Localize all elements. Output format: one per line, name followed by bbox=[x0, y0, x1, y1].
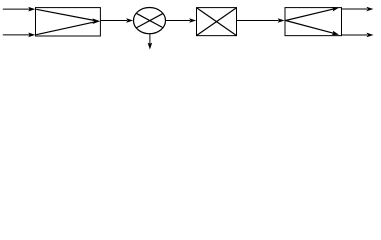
head: output arrow 2 bbox=[367, 33, 374, 38]
splitter internal arrow line (lower) bbox=[286, 21, 334, 34]
head: wire into channel box bbox=[189, 18, 196, 23]
demultiplexer box (splitter) bbox=[285, 8, 342, 36]
head: combiner convergence bbox=[92, 18, 100, 24]
mixer (multiplier) ellipse bbox=[134, 8, 166, 34]
input arrow 1 (top wire) bbox=[3, 8, 30, 10]
arrowheads bbox=[28, 5, 373, 49]
head: input arrow 2 bbox=[28, 33, 35, 38]
head: splitter lower internal arrow bbox=[332, 31, 340, 37]
multiplexer box (combiner) bbox=[36, 8, 101, 36]
mixer X symbol stroke 1 bbox=[136, 13, 163, 28]
channel box X diagonal 1 bbox=[197, 8, 236, 35]
mixer output wire (down) bbox=[149, 34, 151, 45]
head: input arrow 1 bbox=[28, 7, 35, 12]
output arrow 2 (bottom wire) bbox=[342, 34, 367, 36]
channel box X diagonal 2 bbox=[197, 8, 236, 35]
output arrow 1 (top wire) bbox=[342, 8, 367, 10]
wire: combiner to mixer bbox=[101, 20, 127, 22]
head: output arrow 1 bbox=[366, 7, 373, 12]
head: splitter upper internal arrow bbox=[332, 5, 340, 11]
wire: channel to demultiplexer bbox=[237, 20, 279, 22]
splitter internal arrow line (upper) bbox=[286, 9, 334, 21]
channel box bbox=[197, 8, 237, 36]
head: wire into demultiplexer bbox=[278, 18, 285, 23]
input arrow 2 (bottom wire) bbox=[3, 34, 30, 36]
head: wire into mixer bbox=[126, 18, 133, 23]
combiner internal arrow line (lower) bbox=[36, 22, 94, 35]
head: mixer down output bbox=[148, 43, 153, 50]
curved / diagonal strokes (antialiased) bbox=[36, 8, 334, 36]
axis-aligned wires and boxes (crisp 1px) bbox=[3, 8, 367, 45]
mixer X symbol stroke 2 bbox=[136, 13, 163, 28]
wire: mixer to channel box bbox=[165, 20, 190, 22]
combiner internal arrow line (upper) bbox=[36, 9, 94, 20]
